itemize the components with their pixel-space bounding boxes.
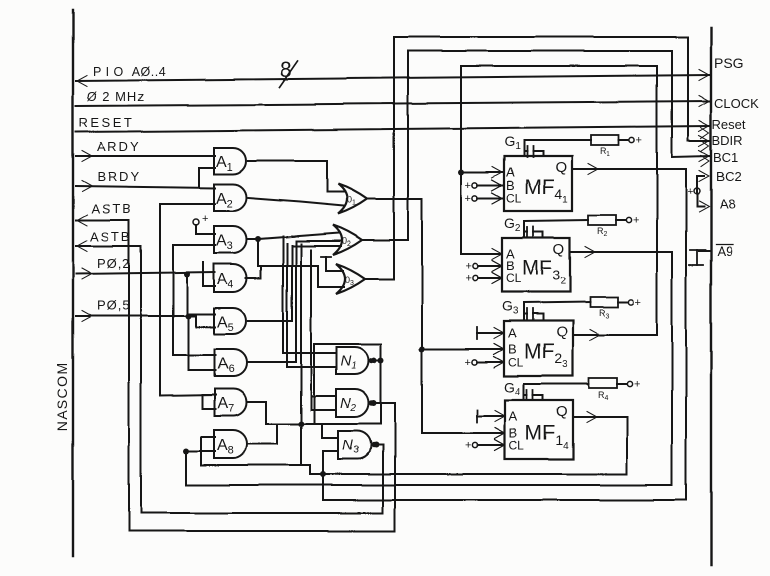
wire ARDY <box>76 155 215 157</box>
N2 upper input wire <box>311 395 336 397</box>
node at N1 output <box>371 357 377 363</box>
vertical feed to N1 lower input <box>286 244 288 367</box>
nand-gate N2 <box>336 389 369 417</box>
wire A2 lower input from vertical net <box>160 203 215 205</box>
node at N1 loop corner <box>378 357 384 363</box>
wire O3 net horizontal <box>258 265 318 267</box>
node on MF A-input net <box>458 169 464 175</box>
logic-1 tie at MF1.A <box>476 410 478 422</box>
svg-text:A8: A8 <box>719 197 735 212</box>
wire A1 lower input hook to BRDY <box>199 168 215 186</box>
and-gate A6 <box>214 349 247 376</box>
svg-text:RESET: RESET <box>79 115 135 130</box>
wire A1 output to O1 upper input <box>248 161 345 192</box>
svg-text:BRDY: BRDY <box>97 169 141 184</box>
A4 lower input stub <box>203 285 215 287</box>
svg-text:+: + <box>635 297 641 309</box>
or-gate O3 <box>336 264 365 294</box>
N3 lower input wire <box>323 450 338 452</box>
wire A6 output up to O2 area <box>248 241 340 362</box>
MF4 input arrows <box>492 167 502 178</box>
resistor R1 <box>591 135 619 145</box>
and-gate A3 <box>214 226 247 253</box>
MF3 input arrows <box>492 249 502 260</box>
node at N3 output <box>373 442 379 448</box>
vertical from N3 lower input down to feedback lines <box>322 451 324 500</box>
N1 output loop: up-left-down rectangle <box>380 344 382 424</box>
svg-text:A: A <box>508 326 517 341</box>
and-gate A8 <box>214 430 247 458</box>
wire A3 output to O2 upper input <box>258 233 340 239</box>
svg-text:CL: CL <box>509 439 525 453</box>
wire A3 output <box>248 238 258 240</box>
svg-text:+: + <box>465 193 471 205</box>
svg-text:Ø 2 MHz: Ø 2 MHz <box>87 89 145 104</box>
o+ supply at R1 <box>629 137 634 142</box>
svg-text:CLOCK: CLOCK <box>714 96 759 111</box>
wire A3 lower input from vertical net x=173 <box>173 244 215 246</box>
monoflop MF4 box <box>504 156 572 211</box>
arrow into BC1 <box>699 151 709 162</box>
wire P0,5 branch down to A6 lower input <box>188 316 215 370</box>
svg-text:PØ,2: PØ,2 <box>97 256 131 271</box>
vertical net x=301 (O2 area down to bottom) <box>300 244 302 465</box>
svg-text:ASTB: ASTB <box>91 201 133 216</box>
wire MF4.Q output, down right side, bottom feedback to N3 net <box>323 169 686 500</box>
wire A3 branch down to O3 net <box>257 239 259 266</box>
wire O3 net down to O3 lower input <box>318 266 344 287</box>
svg-text:+: + <box>634 379 640 391</box>
and-gate A4 <box>214 264 247 292</box>
and-gate A5 <box>214 308 246 334</box>
arrow into CLOCK <box>699 96 709 107</box>
wire PIO A0..4 with left arrow <box>76 75 709 81</box>
wire O1 output down to MF2.B and MF1.B <box>368 199 505 433</box>
A7 lower input stub <box>202 408 215 410</box>
inverted tie T-stub at O3 upper input <box>321 256 331 258</box>
node on O1 output net at MF2.B <box>419 346 425 352</box>
wire ASTB out (lower) <box>76 245 141 247</box>
node at N2 output <box>371 400 377 406</box>
capacitor I-symbol near A9 <box>690 249 705 251</box>
wire A8 output up to N1 loop net <box>248 424 277 444</box>
nand-gate N1 <box>336 347 369 374</box>
logic-1 tie at MF2.A <box>476 327 478 339</box>
N3 upper input hook from N1 loop <box>322 424 338 438</box>
wire riser to R2 <box>524 220 588 221</box>
wire A7 output to N1 loop net <box>248 402 266 424</box>
A8 upper input wire from MF1 Q feedback <box>201 436 215 438</box>
bus width slash 8/ <box>280 61 298 87</box>
wire 2 MHz clock <box>76 101 709 106</box>
resistor R2 <box>588 215 616 225</box>
svg-text:NASCOM: NASCOM <box>54 361 70 431</box>
arrow into Reset <box>699 121 709 132</box>
svg-text:BC1: BC1 <box>713 150 738 165</box>
Q3 arrow <box>585 247 595 258</box>
node on P0,2 <box>184 271 190 277</box>
wire O3 output up and over to BDIR (nested line 1) <box>366 37 709 279</box>
node at A8 lower input <box>183 448 189 454</box>
NASCOM bus (left vertical line) <box>72 10 74 556</box>
svg-text:+: + <box>202 213 208 225</box>
svg-text:+: + <box>465 273 471 285</box>
MF2 input arrows <box>494 328 504 339</box>
o+ supply at R2 <box>626 217 631 222</box>
o+ supply at R3 <box>628 299 633 304</box>
or-gate O1 <box>338 184 367 214</box>
svg-text:+: + <box>465 440 471 452</box>
wire into A6 upper input <box>173 354 215 356</box>
wire MF3.Q output, down, bottom feedback to A8 lower input <box>186 252 672 485</box>
svg-text:BC2: BC2 <box>716 169 741 184</box>
wire P0,2 <box>76 272 215 274</box>
pull-up +o on bracket <box>694 188 700 194</box>
wire A5 output up to O2 lower input <box>248 246 341 321</box>
vertical net x=173 (A3 to A6) <box>172 245 174 355</box>
o+ supply at R4 <box>627 381 632 386</box>
wire ASTB out (upper) <box>76 219 129 221</box>
svg-text:P I O AØ..4: P I O AØ..4 <box>93 65 166 79</box>
svg-text:CL: CL <box>506 192 522 206</box>
resistor R4 <box>589 378 617 388</box>
BC2 arrow and pull-up bracket to A8 line <box>699 171 709 182</box>
vertical feed to N1 upper input <box>282 236 284 353</box>
svg-text:+: + <box>465 261 471 273</box>
svg-text:Q: Q <box>556 403 568 420</box>
svg-text:+: + <box>636 135 642 147</box>
N1 upper input wire <box>283 352 336 354</box>
wire RESET <box>76 126 709 132</box>
node on N1 loop at crossing vertical <box>298 421 304 427</box>
wire MF1.Q output, down, bottom feedback to A8 upper input <box>201 417 627 474</box>
or-gate O2 <box>333 225 362 255</box>
N1 loop bottom wire <box>266 423 381 425</box>
svg-text:Q: Q <box>553 241 565 258</box>
wire P0,5 <box>76 315 196 317</box>
A8 lower input wire from MF3 Q feedback <box>186 450 215 452</box>
monoflop MF2 box <box>504 321 573 376</box>
wire riser to R1 <box>524 139 591 141</box>
monoflop MF1 box <box>505 400 573 459</box>
wire N2 output to ASTB loop <box>372 402 395 404</box>
svg-text:PØ,5: PØ,5 <box>97 298 131 313</box>
Q2 arrow <box>590 330 600 341</box>
svg-text:A: A <box>509 409 518 424</box>
monoflop MF3 box <box>502 238 570 292</box>
wire BRDY <box>76 186 215 188</box>
and-gate A1 <box>214 148 246 174</box>
vertical net x=160 (A2 to A7) <box>159 204 161 396</box>
A7 upper input stub <box>202 394 215 396</box>
wire into A7 upper input <box>160 395 215 396</box>
wire pull-up to A3 upper input <box>196 225 215 234</box>
svg-text:CL: CL <box>508 356 524 370</box>
svg-text:Q: Q <box>556 324 568 341</box>
wire into MF4.A <box>461 171 502 173</box>
svg-text:PSG: PSG <box>714 55 744 71</box>
MF1 input arrows <box>495 411 505 422</box>
pull-up o+ above A3 <box>193 219 199 225</box>
right-side bus vertical line <box>710 28 712 565</box>
svg-text:CL: CL <box>506 272 522 286</box>
wire to MF2.B input <box>422 348 504 350</box>
wire riser to R3 <box>524 302 590 303</box>
svg-text:BDIR: BDIR <box>712 133 743 148</box>
wire P0,5 jog into A5 lower input <box>196 316 215 327</box>
node where MF1 feedback meets N3 input net <box>320 471 326 477</box>
svg-text:ARDY: ARDY <box>97 139 141 154</box>
wire MF2.Q output up and over to MF4/MF3 A inputs (nested line 3) <box>461 66 657 335</box>
arrow into A8 <box>699 202 709 213</box>
svg-text:ASTB: ASTB <box>90 229 132 244</box>
and-gate A7 <box>214 389 247 416</box>
svg-text:+: + <box>465 357 471 369</box>
Q1 arrow <box>587 412 597 423</box>
resistor R3 <box>590 297 618 307</box>
N2 lower input wire <box>311 409 336 411</box>
node at A3 output <box>255 236 261 242</box>
svg-text:8: 8 <box>280 57 292 82</box>
wire P0,2 branch down to A5 upper input <box>187 274 215 314</box>
svg-text:+: + <box>465 180 471 192</box>
Q4 arrow <box>588 164 598 175</box>
wire A2 output to O1 lower input <box>248 198 344 206</box>
svg-text:+: + <box>687 186 693 198</box>
arrow into PSG <box>699 70 709 81</box>
svg-text:Q: Q <box>555 159 567 176</box>
wire riser to R4 <box>524 383 589 385</box>
A9 stub wire <box>699 250 711 252</box>
wire A4 output up to O3 net <box>246 266 261 278</box>
svg-text:B: B <box>508 342 517 357</box>
N1 lower input wire <box>287 366 336 368</box>
svg-text:A9: A9 <box>717 244 733 259</box>
arrow into BDIR <box>699 136 709 147</box>
vertical feed to N2 inputs <box>310 250 312 410</box>
ASTB upper feedback loop from N2: vertical x=129, bottom wire, vertical to N2 output <box>129 220 395 531</box>
nand-gate N3 <box>338 431 371 459</box>
wire O2 output up and over to BC1 (nested line 2) <box>363 51 709 240</box>
svg-text:+: + <box>633 215 639 227</box>
node on P0,5 <box>185 313 191 319</box>
ASTB lower feedback loop from N3: vertical x=141, bottom wire, vertical to N3 output <box>141 246 383 513</box>
and-gate A2 <box>214 184 247 211</box>
svg-text:Reset: Reset <box>712 117 746 132</box>
svg-text:B: B <box>506 178 515 193</box>
